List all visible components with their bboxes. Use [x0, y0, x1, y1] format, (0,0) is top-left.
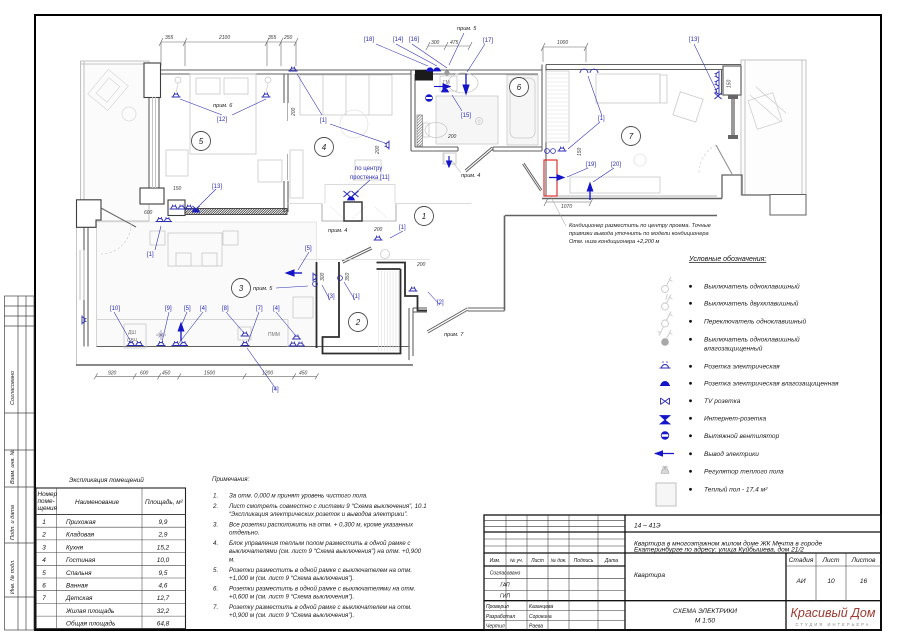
svg-text:Номер: Номер [38, 491, 58, 498]
svg-text:450: 450 [299, 371, 308, 377]
svg-text:Условные обозначения:: Условные обозначения: [688, 255, 766, 263]
svg-text:600: 600 [144, 210, 153, 216]
svg-text:6: 6 [517, 83, 522, 92]
svg-text:выключателями (см. лист 9 “Схе: выключателями (см. лист 9 “Схема выключе… [229, 548, 422, 555]
svg-text:Гостиная: Гостиная [66, 557, 96, 564]
svg-text:4: 4 [322, 143, 327, 152]
svg-text:привязки вывода уточнить по мо: привязки вывода уточнить по модели конди… [569, 231, 709, 237]
svg-text:200: 200 [373, 227, 383, 233]
svg-text:[9]: [9] [165, 306, 172, 312]
bathroom black block [415, 70, 433, 81]
svg-text:№ уч.: № уч. [510, 558, 523, 564]
svg-text:Чертил: Чертил [486, 624, 505, 630]
svg-text:Розетка электрическая: Розетка электрическая [704, 364, 780, 371]
svg-text:1.: 1. [213, 492, 218, 499]
svg-text:Раева: Раева [529, 624, 543, 630]
svg-text:1500: 1500 [204, 371, 215, 377]
svg-text:м.: м. [229, 556, 235, 563]
svg-text:[1]: [1] [147, 252, 154, 258]
svg-text:150: 150 [173, 186, 182, 192]
svg-text:Кладовая: Кладовая [66, 531, 95, 539]
svg-text:3.: 3. [213, 521, 218, 528]
svg-text:[5]: [5] [184, 306, 191, 312]
svg-text:4,6: 4,6 [159, 583, 168, 590]
svg-text:15,2: 15,2 [157, 544, 170, 551]
svg-text:200: 200 [447, 134, 457, 140]
svg-text:5: 5 [42, 570, 46, 577]
svg-text:450: 450 [162, 371, 171, 377]
svg-text:[15]: [15] [461, 113, 471, 119]
svg-text:прим. 7: прим. 7 [444, 332, 464, 338]
svg-text:[8]: [8] [222, 306, 229, 312]
svg-text:щения: щения [38, 505, 58, 512]
svg-text:Сорокина: Сорокина [529, 614, 552, 620]
svg-text:Розетку разместить в одной рам: Розетку разместить в одной рамке с выклю… [229, 604, 412, 611]
conditioner red box [544, 160, 557, 196]
svg-text:М 1:50: М 1:50 [695, 618, 715, 625]
svg-text:по центру: по центру [355, 166, 382, 172]
svg-text:Общая площадь: Общая площадь [66, 620, 115, 628]
svg-text:Согласовано: Согласовано [10, 371, 16, 405]
svg-text:ГИП: ГИП [500, 594, 510, 600]
doors [101, 95, 738, 333]
leader lines [114, 33, 717, 389]
room circle 4 [315, 138, 334, 157]
left stamp strip [5, 296, 35, 630]
svg-text:Стадия: Стадия [789, 556, 814, 564]
svg-text:3: 3 [239, 284, 244, 293]
svg-text:32,2: 32,2 [157, 608, 170, 615]
svg-text:[14]: [14] [393, 37, 403, 43]
wall corner blocks [77, 63, 186, 227]
svg-text:9,5: 9,5 [159, 570, 168, 577]
svg-text:Вывод электрики: Вывод электрики [704, 450, 759, 458]
switch circles [313, 282, 318, 287]
svg-text:64,8: 64,8 [157, 621, 170, 628]
svg-text:1000: 1000 [557, 40, 568, 46]
svg-text:Вытяжной вентилятор: Вытяжной вентилятор [704, 432, 780, 440]
svg-text:Примечания:: Примечания: [212, 476, 249, 483]
svg-text:Экспликация помещений: Экспликация помещений [69, 476, 144, 484]
svg-text:Квартира: Квартира [634, 572, 665, 579]
svg-text:СХЕМА ЭЛЕКТРИКИ: СХЕМА ЭЛЕКТРИКИ [673, 608, 737, 615]
svg-text:прим. 4: прим. 4 [461, 173, 480, 179]
svg-text:Площадь, м²: Площадь, м² [145, 498, 184, 506]
hatched wall room5 bottom [185, 209, 287, 215]
svg-text:[13]: [13] [689, 37, 699, 43]
svg-text:Подпись: Подпись [574, 558, 594, 564]
svg-text:[1]: [1] [353, 294, 360, 300]
svg-text:ГАП: ГАП [500, 583, 510, 589]
svg-text:[10]: [10] [110, 306, 120, 312]
svg-text:12,7: 12,7 [157, 595, 170, 602]
svg-text:+0,900 м (см. лист 9 “Схема вы: +0,900 м (см. лист 9 “Схема выключения”)… [229, 612, 354, 619]
svg-text:влагозащищенный: влагозащищенный [704, 345, 763, 353]
svg-text:[16]: [16] [409, 37, 419, 43]
svg-text:За отм. 0,000 м принят уровень: За отм. 0,000 м принят уровень чистого п… [229, 492, 368, 499]
svg-text:Выключатель одноклавишный: Выключатель одноклавишный [704, 336, 800, 344]
svg-text:ПММ: ПММ [268, 332, 280, 338]
svg-text:[4]: [4] [200, 306, 207, 312]
svg-text:[7]: [7] [256, 306, 263, 312]
svg-text:1: 1 [42, 519, 46, 526]
blue arrows [178, 74, 593, 341]
svg-text:+0,600 м (см. лист 9 “Схема вы: +0,600 м (см. лист 9 “Схема выключения”)… [229, 594, 354, 601]
svg-text:14 – 41Э: 14 – 41Э [634, 523, 661, 530]
svg-text:Лист: Лист [530, 558, 544, 564]
svg-text:прим. 4: прим. 4 [328, 228, 347, 234]
svg-text:Красивый Дом: Красивый Дом [791, 606, 876, 620]
svg-text:Казанцева: Казанцева [529, 604, 554, 610]
svg-text:Инв. № подл.: Инв. № подл. [10, 559, 16, 594]
svg-text:16: 16 [860, 578, 868, 585]
svg-text:прим. 5: прим. 5 [253, 286, 273, 292]
svg-text:2: 2 [355, 318, 361, 327]
svg-text:Все розетки расположить на отм: Все розетки расположить на отм. + 0,300 … [229, 521, 414, 528]
svg-text:[18]: [18] [364, 37, 374, 43]
svg-text:[1]: [1] [399, 225, 406, 231]
svg-text:5: 5 [199, 137, 204, 146]
svg-text:2,9: 2,9 [158, 532, 168, 539]
svg-text:600: 600 [140, 371, 149, 377]
svg-text:Ванная: Ванная [66, 583, 88, 590]
svg-text:+1,000 м (см. лист 9 “Схема вы: +1,000 м (см. лист 9 “Схема выключения”)… [229, 575, 354, 582]
svg-text:200: 200 [291, 107, 297, 117]
room2 walls [317, 262, 428, 354]
svg-text:TV розетка: TV розетка [704, 398, 741, 405]
furniture hallway [381, 153, 457, 259]
room circle 6 [510, 78, 529, 97]
kitchen floor [97, 222, 317, 347]
svg-text:Наименование: Наименование [75, 499, 120, 506]
svg-text:Детская: Детская [65, 595, 93, 602]
svg-text:Спальня: Спальня [66, 570, 92, 577]
svg-text:прим. 6: прим. 6 [213, 103, 233, 109]
svg-text:[20]: [20] [611, 162, 621, 168]
svg-text:10: 10 [827, 578, 835, 585]
svg-text:Листов: Листов [850, 557, 876, 564]
svg-text:Екатеринбурге по адресу: улица: Екатеринбурге по адресу: улица Куйбышева… [634, 546, 804, 554]
room2 door leaf [342, 247, 371, 261]
svg-text:300: 300 [431, 40, 440, 46]
top dimension line [159, 38, 298, 66]
svg-text:150: 150 [577, 147, 583, 156]
svg-text:Подп. и дата: Подп. и дата [10, 505, 16, 540]
svg-text:№ док.: № док. [550, 558, 566, 564]
svg-text:7.: 7. [213, 604, 218, 611]
svg-text:5.: 5. [213, 567, 218, 574]
svg-text:Блок управления теплым полом р: Блок управления теплым полом разместить … [229, 540, 411, 547]
hallway niche [287, 185, 471, 222]
svg-text:Розетка электрическая влагозащ: Розетка электрическая влагозащищенная [704, 381, 839, 388]
svg-text:Отм. низа кондиционера +2,200: Отм. низа кондиционера +2,200 м [569, 239, 660, 245]
title block [484, 515, 881, 630]
svg-text:2.: 2. [212, 503, 218, 510]
svg-text:Розетки разместить в одной рам: Розетки разместить в одной рамке с выклю… [229, 585, 416, 592]
svg-text:Розетки разместить в одной рам: Розетки разместить в одной рамке с выклю… [229, 567, 412, 574]
svg-text:2100: 2100 [218, 35, 230, 41]
svg-text:Жилая площадь: Жилая площадь [65, 607, 114, 615]
svg-text:поме-: поме- [38, 498, 55, 505]
svg-text:475: 475 [450, 40, 459, 46]
svg-text:200: 200 [416, 262, 426, 268]
room circle 5 [192, 132, 211, 151]
bathroom fixtures [423, 73, 538, 164]
conditioner note [569, 223, 711, 245]
svg-text:300: 300 [320, 272, 326, 281]
svg-text:Согласовано: Согласовано [490, 571, 521, 577]
svg-text:Разработал: Разработал [486, 614, 515, 620]
wardrobe interior lines [379, 271, 399, 351]
svg-text:Теплый пол - 17,4 м²: Теплый пол - 17,4 м² [704, 486, 768, 494]
svg-text:7: 7 [629, 132, 634, 141]
svg-text:350: 350 [345, 272, 351, 281]
dim 1000 room7 [541, 43, 588, 62]
svg-text:Взам. инв. №: Взам. инв. № [10, 449, 16, 484]
svg-text:[3]: [3] [328, 294, 335, 300]
electrical symbols [170, 205, 179, 210]
svg-text:7: 7 [42, 595, 46, 602]
room circle 7 [622, 127, 641, 146]
svg-text:Кухня: Кухня [66, 544, 84, 551]
blue labels [110, 37, 699, 393]
windows [80, 97, 156, 300]
svg-text:отдельно.: отдельно. [229, 530, 260, 537]
svg-text:355: 355 [268, 35, 277, 41]
svg-text:6: 6 [42, 583, 46, 590]
svg-text:[12]: [12] [217, 117, 227, 123]
svg-text:2: 2 [41, 532, 46, 539]
svg-text:250: 250 [283, 35, 293, 41]
svg-text:[1]: [1] [320, 118, 327, 124]
svg-text:1: 1 [422, 212, 426, 221]
svg-text:6.: 6. [213, 585, 218, 592]
svg-text:Проверил: Проверил [486, 604, 509, 610]
svg-text:200: 200 [375, 145, 381, 155]
svg-text:10,0: 10,0 [157, 557, 170, 564]
svg-text:Интернет-розетка: Интернет-розетка [704, 416, 767, 423]
svg-text:Выключатель одноклавишный: Выключатель одноклавишный [704, 283, 800, 291]
balcony right [741, 60, 806, 195]
svg-text:Лист: Лист [822, 557, 840, 564]
svg-text:4: 4 [42, 557, 46, 564]
svg-text:прим. 5: прим. 5 [457, 26, 477, 32]
room circle 2 [349, 313, 368, 332]
svg-text:920: 920 [108, 371, 117, 377]
bottom dimension line kitchen [94, 373, 319, 379]
dim 300 475 top [426, 42, 472, 50]
svg-text:3: 3 [42, 544, 46, 551]
svg-text:[19]: [19] [586, 162, 596, 168]
svg-text:Дата: Дата [604, 558, 618, 564]
furniture room5 [166, 74, 282, 182]
svg-text:[17]: [17] [483, 38, 493, 44]
svg-text:СВЧ: СВЧ [127, 338, 137, 344]
svg-text:Переключатель одноклавишный: Переключатель одноклавишный [704, 318, 806, 326]
svg-text:4.: 4. [213, 540, 218, 547]
svg-text:Прихожая: Прихожая [66, 519, 96, 526]
svg-text:“Экспликация электрических роз: “Экспликация электрических розеток и выв… [229, 511, 408, 518]
furniture kitchen [97, 231, 313, 348]
svg-text:[4]: [4] [273, 306, 280, 312]
svg-text:СТУДИЯ ИНТЕРЬЕРА: СТУДИЯ ИНТЕРЬЕРА [796, 622, 871, 627]
svg-text:АИ: АИ [795, 578, 805, 585]
room circle 3 [232, 279, 251, 298]
svg-text:[5]: [5] [305, 246, 312, 252]
room circle 1 [415, 207, 434, 226]
svg-text:1070: 1070 [561, 204, 572, 210]
legend symbols [654, 277, 676, 506]
svg-text:Регулятор теплого пола: Регулятор теплого пола [704, 469, 784, 476]
walls [76, 65, 806, 366]
svg-text:[13]: [13] [212, 184, 222, 190]
furniture room4 [290, 75, 392, 198]
dim 1070 [544, 198, 593, 206]
svg-text:150: 150 [727, 79, 733, 88]
svg-text:9,9: 9,9 [159, 519, 168, 526]
balcony left [81, 61, 150, 221]
svg-text:355: 355 [165, 35, 174, 41]
svg-text:Выключатель двухклавишный: Выключатель двухклавишный [704, 300, 799, 308]
svg-text:Кондиционер разместить по цент: Кондиционер разместить по центру проема.… [569, 223, 711, 229]
tv unit [344, 202, 362, 221]
svg-text:Лист смотреть совместно с лист: Лист смотреть совместно с листами 9 “Схе… [228, 503, 427, 510]
svg-text:Изм.: Изм. [490, 558, 501, 564]
svg-text:ДШ: ДШ [128, 330, 136, 336]
furniture room7 [546, 71, 703, 193]
svg-text:[1]: [1] [598, 116, 605, 122]
